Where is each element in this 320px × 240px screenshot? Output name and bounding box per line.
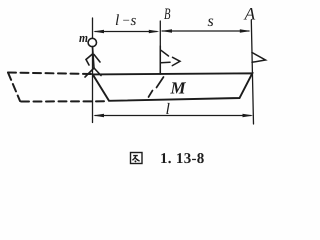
svg-text:1. 13-8: 1. 13-8 xyxy=(160,151,205,167)
boat M: solid hull trapezoid xyxy=(93,73,253,101)
flag at B xyxy=(160,46,180,74)
svg-text:l: l xyxy=(115,12,119,29)
dimension arrow s (between B and A) xyxy=(161,29,250,33)
svg-text:B: B xyxy=(164,6,171,23)
svg-text:m: m xyxy=(79,30,88,45)
caption: hand-drawn CJK character 图 xyxy=(131,153,143,164)
person m: stick figure xyxy=(85,38,101,77)
wire: right extension line at A / right end of boat xyxy=(251,20,253,124)
wire: left extension line at left end of boat xyxy=(92,18,94,123)
svg-text:M: M xyxy=(170,79,187,98)
svg-text:A: A xyxy=(244,4,256,24)
svg-text:s: s xyxy=(131,13,137,29)
break mark on hull near M xyxy=(149,77,164,97)
dimension arrow l (full boat length) xyxy=(93,114,253,118)
node B vertical line xyxy=(159,21,161,74)
dimension arrow l-s (between left end and B) xyxy=(93,30,159,34)
dashed boat outline: previous position xyxy=(8,73,104,102)
svg-text:−: − xyxy=(123,13,130,28)
flag at A xyxy=(252,53,266,63)
svg-text:l: l xyxy=(166,101,171,118)
svg-text:s: s xyxy=(208,13,214,30)
